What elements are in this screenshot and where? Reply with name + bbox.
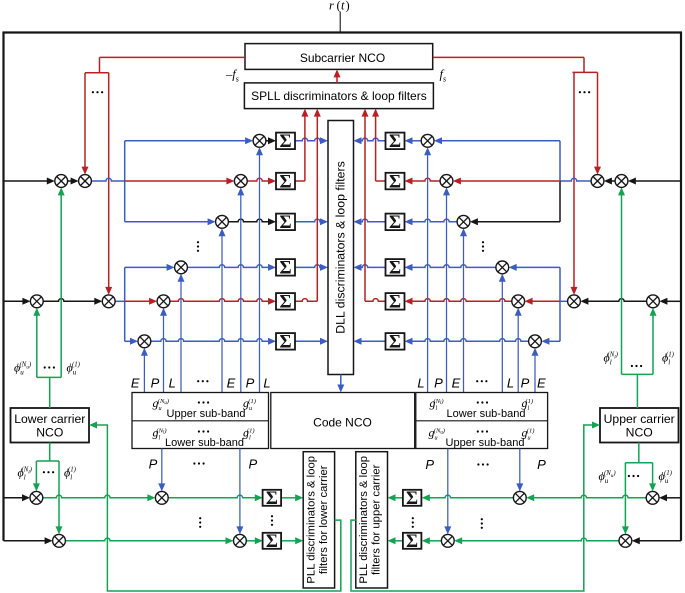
wire left splitter to row-6 code mixer [125,340,131,342]
wire right code replica E up to row-3 mixer [463,235,465,392]
wire r(t) to bottom-right row-1 mixer [666,497,681,499]
wire subcarrier NCO fs output to right bracket [433,56,584,58]
svg-text:Σ: Σ [279,213,291,233]
wire left splitter to row-4 code mixer [125,266,168,268]
wire replica down to right bottom row-2 mixer [624,463,626,528]
wire row-2 subcarrier mixer output to splitter [91,178,124,181]
accumulator S6 left [276,333,295,353]
wire r(t) to row-2 carrier mixer [4,180,48,182]
wire row-2 accumulator to SPLL [295,180,305,182]
wire r(t) to bottom-left row-2 mixer [4,540,46,542]
wire right code replica L up to row-1 mixer [427,154,429,392]
wire bottom-left row-2 mixer to P mixer [65,538,226,541]
accumulator S8 right [386,172,405,192]
mixer M23 bottom-left row-1 P code [155,491,168,504]
wire left prompt row-2 to code mixer [125,180,228,182]
box PLL discriminators & loop filters for lower carrier [303,452,334,588]
accumulator S4 left [276,259,295,279]
mixer M10 left row-6 code E [138,335,151,348]
svg-text:P: P [246,376,255,391]
wire row-1 accumulator to DLL [295,138,321,141]
wire right lower splitter vertical [559,267,561,341]
svg-text:Σ: Σ [389,132,401,152]
label dots between code groups left [197,380,208,382]
mixer M5 left row-1 code L [253,134,266,147]
accumulator S14 bottom-left row-2 [263,532,282,552]
wire right splitter to row-4 code mixer [516,266,560,268]
svg-text:Σ: Σ [389,213,401,233]
wire right row-5 accumulator to SPLL [365,299,386,302]
wire row-5 mixer to accumulator [170,299,269,302]
wire right row-3 mixer to accumulator [412,219,458,222]
wire row-4 mixer to accumulator [187,265,269,268]
accumulator S16 bottom-right row-2 [403,532,422,552]
svg-text:NCO: NCO [626,426,653,440]
svg-text:Σ: Σ [406,532,418,552]
mixer M15 right row-1 code L [421,134,434,147]
wire left splitter to row-3 code mixer [125,221,209,223]
wire bottom-left row-2 P mixer to accumulator [246,540,256,542]
mixer M6 left row-2 code P [234,175,247,188]
wire left splitter to row-1 code mixer [125,140,246,142]
svg-text:Σ: Σ [279,333,291,353]
wire bottom-right row-2 accumulator to PLL [395,540,403,542]
wire left code replica L (group 1) up to row-1 mixer [259,154,261,392]
svg-text:Σ: Σ [279,172,291,192]
svg-text:Σ: Σ [266,489,278,509]
wire right code replica L up to row-4 mixer [501,281,503,393]
wire bottom-right row-1 P mixer to accumulator [429,495,514,498]
wire row-3 accumulator to DLL [295,219,321,222]
wire right splitter to row-3 code mixer [477,221,560,223]
mixer M4 left row-5 subcarrier [102,295,115,308]
svg-text:t: t [341,0,345,13]
wire replica up to right row-2 carrier mixer [621,194,623,374]
svg-text:Σ: Σ [389,333,401,353]
mixer M9 left row-5 code P [157,295,170,308]
svg-text:P: P [149,457,158,472]
accumulator S11 right [386,293,405,313]
wire right code replica P up to row-2 mixer [446,194,448,392]
mixer M17 right row-3 code E [457,215,470,228]
mixer M25 bottom-right row-1 carrier [646,491,659,504]
wire left code replica E (group 2) up to row-6 mixer [143,355,145,393]
wire right splitter to row-6 code mixer [548,340,560,342]
wire right row-6 accumulator to DLL [361,340,386,342]
svg-text:filters for upper carrier: filters for upper carrier [371,464,383,575]
wire bottom-left row-1 mixer to P mixer [43,495,149,498]
svg-text:Upper sub-band: Upper sub-band [446,437,525,449]
svg-text:Lower carrier: Lower carrier [14,412,85,426]
wire right row-4 accumulator to DLL [361,265,386,268]
wire lower carrier NCO to lower replica bracket [49,443,51,462]
wire lower carrier NCO to upper-carrier replica bracket [49,377,51,408]
svg-text:L: L [263,376,270,391]
box Lower carrier NCO [11,408,90,443]
svg-text:Σ: Σ [389,259,401,279]
wire replica down to bottom row-2 mixer [58,461,60,527]
wire right row-4 mixer to accumulator [412,265,496,268]
svg-text:NCO: NCO [36,426,63,440]
mixer M2 left row-2 subcarrier [79,175,92,188]
wire subcarrier replica down to right row-2 mixer [597,72,599,167]
accumulator S7 right [386,132,405,152]
wire r(t) drop into receiver [339,12,341,33]
accumulator S3 left [276,213,295,233]
svg-text:PLL discriminators & loop: PLL discriminators & loop [305,456,317,584]
svg-text:P: P [521,376,530,391]
wire right row-5 mixer to accumulator [412,299,512,302]
svg-text:Σ: Σ [279,259,291,279]
accumulator S2 left [276,172,295,192]
wire subcarrier replica N down to row-5 mixer [108,73,110,288]
wire r(t) to bottom-right row-2 mixer [639,540,681,542]
wire left upper splitter vertical [124,141,126,222]
box lower/upper sub-band code generators right [416,393,548,449]
wire bottom-left row-2 accumulator to PLL [281,540,296,542]
wire left code replica L (group 2) up to row-4 mixer [180,281,182,393]
wire row-4 accumulator to DLL [295,265,321,268]
svg-text:E: E [131,376,140,391]
svg-text:Σ: Σ [279,132,291,152]
mixer M1 left row-2 carrier [55,175,68,188]
mixer M20 right row-6 code E [529,335,542,348]
wire bottom-right row-2 mixer to P mixer [461,538,619,541]
wire right row-5 carrier mixer to subcarrier mixer [587,299,646,302]
svg-text:E: E [227,376,236,391]
wire left subcarrier bracket [85,72,109,74]
mixer M21 bottom-left row-1 carrier [30,491,43,504]
wire r(t) to bottom-left row-1 mixer [4,497,24,499]
mixer M14 right row-5 subcarrier [568,295,581,308]
wire left code replica P (group 1) up to row-2 mixer [240,194,242,392]
wire P code replica down to bottom-right row-1 [519,449,521,485]
box SPLL discriminators & loop filters [244,83,433,109]
wire lower PLL feedback to Lower carrier NCO [96,425,341,591]
svg-text:P: P [248,457,257,472]
box Subcarrier NCO [245,44,433,70]
svg-text:P: P [151,376,160,391]
label dots right subcarrier bracket [579,91,590,93]
svg-text:Σ: Σ [266,532,278,552]
label dots left subcarrier bracket [92,91,103,93]
svg-text:L: L [169,376,176,391]
wire left upper replica bracket [37,376,61,378]
wire right row-2 mixer to accumulator [412,178,441,181]
wire r(t) to row-5 carrier mixer [4,300,24,302]
wire bottom-left row-1 P mixer to accumulator [168,495,256,498]
svg-text:r: r [329,0,334,13]
wire SPLL output to Subcarrier NCO [336,77,338,83]
svg-text:Upper carrier: Upper carrier [604,412,675,426]
svg-text:Lower sub-band: Lower sub-band [165,437,244,449]
svg-text:L: L [507,376,514,391]
wire right row-2 carrier mixer to subcarrier mixer [611,180,615,182]
wire right subcarrier bracket [573,71,598,73]
svg-text:Σ: Σ [389,172,401,192]
wire subcarrier replica down to right row-5 mixer [573,72,575,288]
wire right prompt row-2 to code mixer [460,180,560,182]
wire row-5 subcarrier mixer output to splitter [115,300,125,302]
wire r(t) to right row-5 carrier mixer [666,300,681,302]
wire row-1 mixer to accumulator [266,140,269,142]
wire r(t) to right row-2 carrier mixer [635,180,681,182]
wire right prompt row-5 to code mixer [532,300,560,302]
svg-text:): ) [346,0,350,13]
wire row-6 mixer to accumulator [151,339,269,342]
box Upper carrier NCO [600,408,679,443]
wire left prompt row-5 to code mixer [125,300,150,302]
label dots between code groups right [476,380,487,382]
mixer M12 right row-2 subcarrier [591,175,604,188]
wire row-2 mixer to accumulator [247,178,269,181]
svg-text:filters for lower carrier: filters for lower carrier [318,465,330,574]
mixer M22 bottom-left row-2 carrier [53,534,66,547]
wire right row-1 mixer to accumulator [412,140,422,142]
mixer M28 bottom-right row-2 P code [441,534,454,547]
mixer M19 right row-5 code P [512,295,525,308]
wire replica up to right row-5 carrier mixer [652,315,654,375]
mixer M26 bottom-right row-2 carrier [619,534,632,547]
wire bottom-right row-1 accumulator to PLL [395,497,403,499]
box PLL discriminators & loop filters for upper carrier [356,452,388,588]
wire left code replica P (group 2) up to row-5 mixer [163,315,165,393]
box upper/lower sub-band code generators left [132,393,269,449]
mixer M13 right row-5 carrier [647,295,660,308]
wire upper PLL feedback to Upper carrier NCO [351,425,594,591]
mixer M11 right row-2 carrier [615,175,628,188]
wire right upper splitter vertical black part [559,181,561,222]
mixer M8 left row-4 code L [175,261,188,274]
accumulator S5 left [276,293,295,313]
accumulator S13 bottom-left row-1 [263,489,282,509]
accumulator S10 right [386,259,405,279]
accumulator S12 right [386,333,405,353]
wire right upper replica bracket [622,373,654,375]
wire right row-1 accumulator to DLL [361,138,386,141]
wire P code replica down to bottom-left row-2 [239,449,241,528]
label vertical dots between row groups right [482,241,484,252]
mixer M7 left row-3 code E [216,215,229,228]
svg-text:Code NCO: Code NCO [313,415,372,429]
wire right lower replica bracket [625,462,652,464]
wire right row-3 accumulator to DLL [361,219,386,222]
wire right row-6 mixer to accumulator [412,339,529,342]
wire right row-2 accumulator to SPLL [376,180,386,182]
wire bottom-left row-1 accumulator to PLL [281,497,296,499]
wire row-5 accumulator to SPLL [295,299,317,302]
svg-text:Σ: Σ [406,489,418,509]
wire right splitter to row-1 code mixer [441,140,560,142]
wire right upper splitter vertical blue part [559,141,561,181]
svg-text:P: P [425,457,434,472]
wire right row-5 subcarrier mixer output to splitter [560,300,568,302]
wire left code replica E (group 1) up to row-3 mixer [221,235,223,392]
svg-text:E: E [537,376,546,391]
svg-text:PLL discriminators & loop: PLL discriminators & loop [358,456,370,584]
svg-text:P: P [434,376,443,391]
wire bottom-right row-1 mixer to P mixer [533,495,646,498]
wire P code replica down to bottom-right row-2 [447,449,449,528]
wire replica up to row-2 carrier mixer [60,194,62,377]
box DLL discriminators & loop filters [328,121,354,375]
svg-text:L: L [417,376,424,391]
wire right row-2 subcarrier mixer output to splitter [560,178,591,181]
wire left lower splitter vertical [124,267,126,341]
wire row-6 accumulator to DLL [295,340,321,342]
mixer M3 left row-5 carrier [30,295,43,308]
wire left lower replica bracket [36,460,59,462]
wire upper carrier NCO to lower-carrier replica bracket [636,374,638,408]
svg-text:DLL discriminators & loop filt: DLL discriminators & loop filters [334,161,348,333]
svg-text:E: E [452,376,461,391]
accumulator S9 right [386,213,405,233]
wire upper carrier NCO to lower replica bracket [638,443,640,463]
box Code NCO [271,393,415,449]
svg-text:Σ: Σ [389,293,401,313]
wire right code replica E up to row-6 mixer [534,355,536,393]
accumulator S15 bottom-right row-1 [403,489,422,509]
wire subcarrier NCO -fs output to left bracket [100,56,246,58]
wire row-5 carrier mixer to subcarrier mixer [43,299,95,302]
mixer M24 bottom-left row-2 P code [234,534,247,547]
label vertical dots bottom rows [199,517,201,528]
accumulator S1 left [276,132,295,152]
label vertical dots between row groups left [197,241,199,252]
mixer M18 right row-4 code L [496,261,509,274]
svg-text:P: P [537,457,546,472]
wire right code replica P up to row-5 mixer [517,315,519,393]
svg-text:Σ: Σ [279,293,291,313]
wire DLL output to Code NCO [340,375,342,386]
wire replica down to bottom row-1 mixer [35,461,37,484]
svg-text:Lower sub-band: Lower sub-band [447,408,526,420]
wire row-2 carrier mixer to subcarrier mixer [68,180,72,182]
mixer M27 bottom-right row-1 P code [513,491,526,504]
wire P code replica down to bottom-left row-1 [161,449,163,485]
wire row-3 mixer to accumulator [228,219,269,222]
svg-text:Upper sub-band: Upper sub-band [167,408,246,420]
wire replica down to right bottom row-1 mixer [652,463,654,485]
mixer M16 right row-2 code P [440,175,453,188]
wire replica up to row-5 carrier mixer [36,315,38,378]
svg-text:Subcarrier NCO: Subcarrier NCO [300,51,385,65]
wire bottom-right row-2 P mixer to accumulator [429,540,442,542]
wire subcarrier replica 1 down to row-2 mixer [84,73,86,168]
svg-text:SPLL discriminators & loop fil: SPLL discriminators & loop filters [251,89,427,103]
